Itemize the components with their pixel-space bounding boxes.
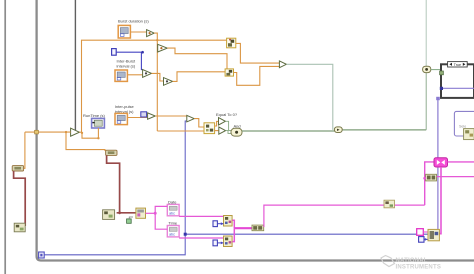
outer structure left border (4, 0, 6, 274)
svg-text:Burst duration (s): Burst duration (s) (118, 18, 149, 23)
boolean constant green (127, 217, 133, 223)
wire QR to E1 (215, 121, 219, 126)
wire boolean main green (242, 0, 426, 131)
gray divider bottom (37, 261, 474, 263)
conversion node N1 (227, 38, 236, 48)
quotient remainder QR (204, 123, 215, 134)
control Burst duration (118, 25, 130, 38)
visa wire down (436, 97, 440, 230)
comparison T5 (279, 61, 286, 68)
wire to P1 (24, 132, 25, 168)
wire N2 out (234, 66, 280, 85)
wire T7 out (194, 119, 204, 127)
divide T7 (187, 115, 194, 122)
wire E2 to And (226, 131, 231, 134)
svg-text:Sele: Sele (459, 125, 466, 129)
or gate oval1 (334, 127, 342, 133)
divide T4 (164, 78, 173, 86)
wire QR to E2 (215, 130, 219, 132)
concatenate strings C6 (252, 225, 264, 231)
match pattern node N7 (384, 200, 395, 208)
indicator Time (167, 226, 179, 237)
case selector tunnel (440, 71, 444, 75)
equal to zero E2 (219, 127, 226, 134)
wire XN right (448, 161, 474, 163)
conversion pill P1 (12, 166, 23, 171)
wire maroon P2 down (107, 155, 136, 214)
or gate oval2 (423, 66, 431, 72)
case selector label (448, 62, 468, 67)
wire Time out (179, 237, 223, 239)
equal to zero E1 (219, 118, 226, 125)
subvi frame violet (454, 111, 474, 136)
subvi icon (459, 125, 474, 140)
wire T6 out (155, 115, 186, 117)
multiply T3 (143, 70, 152, 78)
wire Date out (179, 215, 223, 217)
svg-text:INSTRUMENTS: INSTRUMENTS (396, 264, 442, 270)
label Date (168, 199, 177, 204)
numeric constant IC1 (141, 112, 147, 117)
ni watermark (381, 256, 441, 271)
iteration terminal i (39, 252, 45, 258)
constant blue F4 (213, 221, 224, 227)
control Inter-pulse interval (115, 113, 127, 124)
wire concat up right long pink (264, 162, 434, 227)
wire E1 to And (225, 121, 231, 130)
label RunTime (s) (83, 113, 106, 118)
svg-text:abc: abc (169, 212, 175, 216)
wire T4 out (173, 72, 225, 82)
reciprocal T8 (71, 128, 80, 136)
label Time (168, 221, 178, 226)
wire N1 out (236, 43, 279, 63)
wire F4 F5 to concat thick (232, 220, 252, 241)
wire V1 vertical (156, 40, 158, 131)
wire tunnel row (25, 130, 71, 134)
wire T1 out (154, 33, 157, 40)
svg-text:And: And (234, 123, 241, 128)
wire T5 out teal (286, 64, 332, 130)
wire node3 to Date Time pink (146, 206, 168, 229)
constant blue W (419, 237, 428, 243)
write file node WN (428, 229, 439, 240)
wire T3 out (152, 73, 164, 81)
number to string node F5 (224, 236, 233, 247)
svg-text:Date: Date (168, 199, 177, 204)
label Inter-pulse interval (s) (115, 104, 135, 114)
wire Burst->T1 (130, 31, 146, 33)
case structure (441, 64, 474, 98)
number to string node F4 (224, 216, 233, 227)
queue node XN magenta (434, 158, 448, 167)
indicator Date (167, 204, 179, 215)
wire main top row (82, 39, 227, 133)
svg-text:interval (s): interval (s) (117, 64, 136, 69)
multiply T1 (147, 30, 155, 37)
wire oval2 to case (431, 69, 440, 71)
svg-text:RunTime (s): RunTime (s) (83, 113, 106, 118)
wire i blue (44, 121, 428, 255)
wire B1 blue (116, 51, 144, 70)
wire InterBurst->T3 (127, 74, 142, 76)
local variable icon1 (14, 223, 25, 232)
multiply T2 (158, 44, 168, 52)
svg-text:Time: Time (168, 221, 178, 226)
conversion node N2 (225, 69, 233, 76)
svg-text:abc: abc (169, 233, 175, 237)
wire RunTime down (81, 128, 100, 139)
concatenate strings C8 (423, 174, 436, 181)
wire XN down (439, 167, 441, 234)
svg-text:NATIONAL: NATIONAL (396, 258, 428, 264)
wire T8 out (79, 131, 82, 133)
label Inter-Burst interval (s) (117, 59, 137, 69)
format date time node (136, 208, 146, 218)
conversion pill P2 (106, 150, 117, 155)
multiply T6 (148, 113, 156, 119)
numeric constant blue B1 (112, 49, 117, 56)
wire maroon P1 down (14, 171, 26, 226)
wire branch to P2 (66, 132, 105, 151)
constant blue F5 (213, 240, 224, 246)
control Inter-Burst interval (115, 70, 127, 81)
control RunTime (92, 118, 105, 128)
label Burst duration (s) (118, 18, 149, 23)
svg-text:True: True (454, 63, 461, 67)
and gate (231, 128, 242, 136)
label Equal To 0? (216, 112, 238, 117)
wire V1 to QR (157, 130, 204, 132)
wire C8 out (437, 176, 474, 178)
inner structure border (74, 0, 76, 131)
wire T2 out (167, 48, 227, 69)
visa wire in case (440, 87, 474, 90)
string constant pink (417, 229, 428, 236)
label And (234, 123, 241, 128)
local variable icon2 (103, 210, 115, 220)
svg-text:Equal To 0?: Equal To 0? (216, 112, 238, 117)
wire InterPulse->T6 (127, 117, 147, 119)
